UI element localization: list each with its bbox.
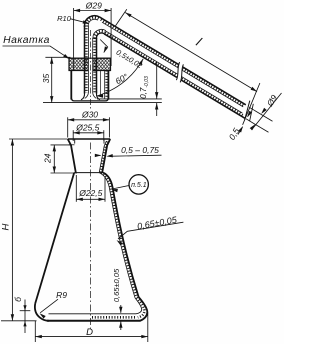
tube top outer wall line bbox=[100, 17, 246, 105]
dimension Ø25,5 line bbox=[73, 132, 104, 134]
svg-text:Ø25,5: Ø25,5 bbox=[75, 123, 99, 133]
dimension 0,65 lower arrow bbox=[120, 321, 122, 330]
dimension 0,5 lower arrow bbox=[238, 127, 243, 135]
tube vertical centerline bbox=[90, 30, 92, 109]
vertical tube left wall stipple bbox=[85, 26, 88, 94]
flask rim inner lip right bbox=[103, 139, 105, 144]
dimension Ø29 line bbox=[74, 10, 112, 12]
dimension l left extension line bbox=[115, 9, 127, 26]
flask cone left edge bbox=[35, 173, 74, 304]
flask cone right outer edge bbox=[103, 173, 139, 297]
dimension Ø30 left extension line bbox=[67, 117, 69, 137]
dimension Ø29 right extension line bbox=[110, 8, 112, 66]
vertical tube left outer wall bbox=[84, 26, 86, 94]
dimension l line bbox=[125, 13, 257, 92]
svg-text:Ø29: Ø29 bbox=[85, 0, 102, 10]
svg-text:24: 24 bbox=[43, 153, 53, 164]
flask bottom-right corner inner bbox=[135, 298, 142, 314]
dimension 24 bottom extension line bbox=[51, 172, 78, 174]
tube bore white fill bbox=[89, 57, 93, 94]
label 0,65±0,05 slanted leader bbox=[118, 222, 183, 239]
dimension Ø22,5 right extension line bbox=[104, 177, 106, 202]
tube lower tip flare left bbox=[81, 93, 85, 100]
dimension l right extension line bbox=[243, 83, 260, 125]
label 0,5-0,75 leader bbox=[112, 155, 161, 156]
flask centerline bbox=[90, 143, 92, 331]
vertical tube right outer wall bbox=[96, 38, 98, 94]
svg-text:H: H bbox=[0, 223, 11, 230]
svg-text:Ø30: Ø30 bbox=[81, 109, 98, 119]
flask cone right wall stipple bbox=[101, 173, 137, 298]
flask neck-cone junction line bbox=[74, 172, 103, 174]
flask rim lip bottom left tick bbox=[69, 144, 75, 146]
dimension 35 bottom extension line (long) bbox=[43, 102, 162, 104]
tube bottom wall stipple bbox=[105, 33, 244, 116]
dimension Ø22,5 left extension line bbox=[75, 175, 77, 202]
dimension D line bbox=[35, 336, 148, 338]
dimension Ø9 bottom extension line bbox=[246, 119, 269, 133]
dimension D right extension line bbox=[147, 313, 149, 343]
dimension 0,5±0,02 leader bbox=[100, 40, 108, 48]
svg-text:D: D bbox=[86, 327, 93, 338]
dimension 0,7 line upper part bbox=[156, 62, 158, 99]
svg-text:Накатка: Накатка bbox=[3, 35, 50, 46]
flask rim left outer edge bbox=[68, 139, 76, 173]
label R10 leader bbox=[71, 19, 89, 24]
label R9 leader bbox=[40, 299, 58, 313]
dimension Ø25,5 right extension line bbox=[103, 130, 105, 141]
tube break gap mask bbox=[176, 62, 183, 83]
flask rim top line bbox=[68, 138, 111, 140]
flask bottom-right corner outer bbox=[139, 297, 148, 321]
dimension 24 line bbox=[53, 145, 55, 173]
flask bottom-right corner stipple bbox=[137, 298, 145, 318]
svg-text:0,65±0,05: 0,65±0,05 bbox=[112, 268, 121, 302]
flask bottom outer line bbox=[47, 320, 141, 322]
dimension Ø29 left extension line bbox=[73, 8, 75, 70]
tube bend outer-wall inner arc bbox=[88, 19, 98, 27]
label Накатка leader bbox=[3, 46, 70, 59]
flask neck right wall stipple bbox=[101, 142, 108, 173]
svg-text:0,5 – 0,75: 0,5 – 0,75 bbox=[121, 145, 159, 155]
tube bottom inner wall line bbox=[106, 31, 242, 113]
dimension 24 top extension line bbox=[51, 144, 73, 146]
dimension 35 top extension line bbox=[45, 56, 70, 58]
dimension D left extension line bbox=[34, 321, 36, 342]
dimension Ø9 line bbox=[252, 93, 282, 130]
tube bottom outer wall line bbox=[104, 34, 245, 119]
dimension Ø25,5 left extension line bbox=[72, 130, 74, 141]
dimension б line bbox=[24, 300, 26, 334]
cap top line bbox=[69, 57, 111, 59]
tube bend inner arc bbox=[96, 33, 104, 39]
label п.5.1 leader bbox=[112, 186, 129, 190]
flask bottom inner line bbox=[49, 313, 137, 315]
tube break left cut line bbox=[176, 62, 179, 80]
tube top wall stipple bbox=[101, 20, 244, 106]
tube top inner wall line bbox=[102, 22, 243, 107]
dimension 0,7 line lower part bbox=[156, 103, 158, 116]
cap interior thread line right bbox=[99, 71, 101, 97]
flask bottom-left corner R9 bbox=[35, 304, 49, 321]
dimension Ø30 right extension line bbox=[108, 117, 110, 137]
svg-text:R9: R9 bbox=[56, 290, 67, 300]
dimension 0,5 upper arrow bbox=[248, 112, 251, 117]
cap knurled band bbox=[69, 58, 111, 70]
tube bend outer arc R10 bbox=[85, 16, 100, 27]
vertical tube right inner wall bbox=[92, 38, 94, 93]
tube break right cut line bbox=[180, 64, 183, 82]
tube lower tip flare right bbox=[96, 93, 100, 100]
dimension H bottom extension line bbox=[1, 320, 37, 322]
label 0,5-0,75 opposing arrow bbox=[96, 154, 101, 156]
dimension Ø22,5 line bbox=[76, 198, 105, 200]
svg-text:п.5.1: п.5.1 bbox=[131, 182, 147, 189]
flask neck right wall inner line bbox=[99, 141, 106, 173]
tube end outer cut line bbox=[245, 101, 250, 121]
cap body left outer wall bbox=[70, 71, 72, 100]
flask cone right wall inner line bbox=[99, 173, 135, 298]
tube bend inner-wall stipple arc bbox=[95, 31, 105, 38]
dimension Ø30 line bbox=[68, 119, 110, 121]
cap bottom line bbox=[71, 97, 108, 101]
svg-text:R10: R10 bbox=[57, 14, 72, 23]
extension line from tube tip for wall dimension bbox=[97, 98, 162, 100]
tube bend outer-wall stipple arc bbox=[86, 18, 98, 27]
vertical tube right wall stipple bbox=[93, 38, 96, 93]
dimension H line bbox=[11, 139, 13, 321]
dimension 60° arc bbox=[97, 59, 143, 96]
dimension 0,5±0,02 small arrow bbox=[104, 49, 106, 53]
dimension 35 line bbox=[51, 57, 53, 102]
svg-text:35: 35 bbox=[41, 74, 51, 84]
dimension Ø9 top extension line bbox=[249, 107, 272, 121]
label п.5.1 circle bbox=[129, 175, 148, 194]
flask rim inner lip left bbox=[74, 139, 76, 144]
cap body right outer wall bbox=[107, 71, 109, 100]
cap right wall stipple bbox=[105, 71, 107, 100]
vertical tube left inner wall bbox=[87, 26, 89, 93]
tube bend inner-wall boundary arc bbox=[93, 29, 106, 38]
svg-text:Ø22,5: Ø22,5 bbox=[78, 188, 102, 198]
cap body right inner wall bbox=[104, 71, 106, 100]
dimension H top extension line bbox=[9, 138, 67, 140]
flask bottom wall stipple (right half-section) bbox=[92, 316, 135, 319]
tube end mouth inner line bbox=[250, 104, 254, 121]
dimension 0,65 upper arrow bbox=[120, 305, 122, 313]
dimension б extension line bbox=[20, 310, 31, 312]
flask neck right outer edge bbox=[102, 139, 110, 173]
